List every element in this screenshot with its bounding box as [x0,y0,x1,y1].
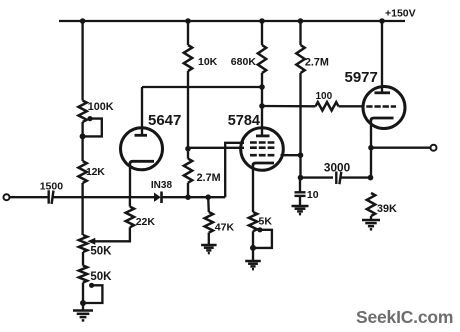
capacitor 3000 [336,172,341,185]
resistor 2.7M top [296,45,304,73]
junction dot output node [368,145,374,151]
wire rail to 10K [187,21,189,45]
resistor 680K [258,45,266,73]
wire 100K to 12K [81,122,83,161]
resistor 100K [78,101,86,123]
potentiometer 50K upper [79,235,87,252]
svg-text:10K: 10K [198,56,218,68]
label 10 [307,189,319,201]
junction dot 100K wiper tap [80,133,86,139]
svg-text:+150V: +150V [385,8,416,20]
wire 39K to ground [370,216,372,220]
resistor 12K [78,161,86,183]
wire screen node to 10 cap [299,178,301,192]
svg-text:12K: 12K [86,166,105,178]
label 12K [86,166,105,178]
junction dot 39K top [368,175,374,181]
cathode of 5784 [253,163,274,166]
label 5977 [345,69,378,86]
tube 5647 envelope [121,128,163,170]
grid 3 of 5784 [250,154,276,157]
wire 5K to ground [252,231,254,261]
wiper arm of 100K rheostat [83,116,102,136]
label 3000 [324,161,351,175]
junction dot rail at 680K branch [259,18,265,24]
label SeekIC.com watermark [356,307,453,327]
resistor 10K [184,45,192,71]
label 47K [215,222,235,234]
resistor 47K [205,212,213,233]
wire output node to terminal [371,147,431,149]
label 10K [198,56,218,68]
resistor 39K [367,193,375,216]
svg-text:680K: 680K [231,56,257,68]
tube 5784 envelope [241,128,284,171]
plate of 5977 [375,87,391,93]
potentiometer 50K lower [79,266,87,283]
wire 50K to ground [82,283,84,311]
wire 10K to junction [187,71,189,149]
label 5647 [148,112,181,129]
wire 5647 cathode down [129,163,131,198]
junction dot 10K/2.7M node [185,146,191,152]
junction dot rail at 10K branch [185,18,191,24]
wiper arm of 5K rheostat [252,227,272,248]
junction dot rail at 2.7M branch [298,18,304,24]
svg-text:IN38: IN38 [151,180,173,191]
wiper arm of 50K lower rheostat [83,283,102,303]
grid of 5977 [366,105,396,108]
wire 2.7M to screen node [299,73,301,178]
junction dot 2.7M bottom [185,194,191,200]
wire 3000 to cathode branch [341,176,371,178]
wire 12K down across input line to 50K [81,183,83,235]
diode 1N38 [154,192,162,204]
svg-text:50K: 50K [90,271,112,283]
wire 1500 to diode [53,196,154,198]
potentiometer 5K [249,212,257,231]
plate of 5784 [256,129,270,136]
svg-text:3000: 3000 [324,161,351,175]
label 50K upper [90,246,112,258]
label 5K [259,216,273,228]
label 1500 [40,181,64,193]
junction dot 5K tap [250,245,256,251]
svg-text:22K: 22K [136,216,156,228]
label 39K [377,203,397,215]
wire 5784 cathode to 5K [252,163,254,212]
svg-text:5K: 5K [259,216,273,228]
wire 680K to plate node [261,73,263,129]
wire node to 5784 grid2 [188,147,244,149]
wire bypass node to 3000 [301,176,334,178]
wire 47K to ground [208,233,210,245]
label 2.7M top [305,57,329,69]
ground below 50K chain [73,311,93,321]
junction dot rail at 5977 plate [379,18,385,24]
capacitor 10 [295,192,306,206]
wire 100 to 5977 grid [339,105,365,107]
wire grid riser of 5784 [225,143,244,197]
junction dot 47K top [205,194,211,200]
cathode of 5977 [371,118,394,121]
svg-text:2.7M: 2.7M [305,57,329,69]
label 22K [136,216,156,228]
wire rail to 680K [261,21,263,45]
wire rail to 5977 plate [381,21,383,88]
wire 2.7M to input line [187,183,189,198]
terminal input [4,194,10,200]
label 680K [231,56,257,68]
label 50K lower [90,271,112,283]
wire 5647 plate link [142,86,262,88]
resistor 22K [126,207,134,228]
wire between 50K pots [82,252,84,266]
svg-text:2.7M: 2.7M [197,172,221,184]
wire plate node to 100 resistor [262,105,316,108]
junction dot screen node [298,152,304,158]
grid 1 of 5784 [250,141,276,144]
terminal output [431,145,437,151]
svg-text:50K: 50K [90,246,112,258]
resistor 100 [316,102,339,110]
junction dot bypass node [298,175,304,181]
label 5784 [228,113,260,129]
capacitor 1500 [49,190,54,204]
label IN38 [151,180,173,191]
wiper arm of upper 50K to 22K [87,227,130,245]
junction dot 50K lower tap [80,300,86,306]
wire input to 1500 [10,196,48,198]
wire +150V supply rail [59,20,405,22]
wire junction to 2.7M [187,149,189,159]
wire rail to 2.7M [299,21,301,45]
wire grid3 to screen node [281,154,301,156]
label +150V [385,8,416,20]
svg-text:5647: 5647 [148,112,181,129]
label 100K [88,101,114,113]
wire input line to 47K [207,197,210,212]
wire diode to grid riser [162,196,226,198]
plate of 5647 [135,87,148,135]
svg-text:5784: 5784 [228,113,260,129]
tube 5977 envelope [363,87,405,129]
cathode of 5647 [130,161,154,164]
wire rail to 100K [81,21,83,101]
wire cathode to 22K [129,197,131,206]
svg-text:SeekIC.com: SeekIC.com [356,307,453,327]
svg-text:5977: 5977 [345,69,378,86]
label 100 [316,91,333,102]
grid 2 of 5784 [250,146,276,149]
label 2.7M middle [197,172,221,184]
junction dot 5784 plate node [259,103,265,109]
junction dot 5647 plate node [259,84,265,90]
resistor 2.7M middle [184,159,192,183]
ground below 47K [201,245,217,253]
svg-text:39K: 39K [377,203,397,215]
svg-text:100: 100 [316,91,333,102]
svg-text:47K: 47K [215,222,235,234]
svg-text:1500: 1500 [40,181,64,193]
ground below 5K [245,261,261,269]
junction dot rail at 100K branch [80,18,86,24]
ground below 10 cap [292,206,309,214]
ground below 39K [362,220,380,229]
svg-text:100K: 100K [88,101,114,113]
svg-text:10: 10 [307,189,319,201]
wire 5977 cathode down [370,120,372,178]
